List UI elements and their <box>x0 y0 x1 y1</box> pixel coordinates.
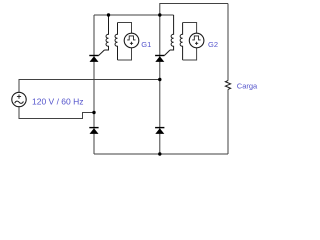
pulse source G2 circle <box>189 33 204 48</box>
wire top net (SCR cathodes / gate xfmr taps) y=15 <box>94 14 174 16</box>
diode D1 cathode bar <box>89 127 98 129</box>
diode D2 cathode bar <box>155 127 164 129</box>
SCR Q1 triangle <box>90 56 99 62</box>
wire middle column <box>159 15 161 154</box>
svg-text:G2: G2 <box>208 40 218 49</box>
transformer T1 primary coil <box>115 23 118 61</box>
transformer T2 primary coil <box>180 23 183 61</box>
pulse source G2 square-wave glyph <box>192 36 200 40</box>
diode D2 triangle <box>155 128 164 134</box>
resistor Carga zigzag <box>225 81 230 90</box>
svg-text:G1: G1 <box>141 40 151 49</box>
svg-text:Carga: Carga <box>237 81 258 90</box>
wire right rail lower <box>227 89 229 154</box>
pulse source G1 square-wave glyph <box>127 36 135 40</box>
diode D1 triangle <box>90 128 99 134</box>
pulse source G1 plus <box>130 42 133 45</box>
AC source V1 circle <box>12 92 26 106</box>
SCR Q2 triangle <box>155 56 164 62</box>
AC source plus sign <box>17 95 21 99</box>
junction node SCR2 anode / source <box>158 78 161 81</box>
wire source bottom jog to left column <box>19 107 94 119</box>
wire left column <box>93 15 95 154</box>
AC source sine glyph <box>15 101 24 103</box>
junction node source bottom / left column <box>92 111 95 114</box>
pulse source G1 circle <box>124 33 139 48</box>
junction node bottom rail <box>158 152 161 155</box>
wire G1 primary loop <box>118 23 132 61</box>
transformer T2 secondary coil (to SCR2 gate) <box>170 15 174 50</box>
wire G2 primary loop <box>183 23 197 61</box>
wire bottom rail <box>94 153 228 155</box>
SCR Q1 cathode bar <box>89 55 98 57</box>
wire source top to SCR2 anode <box>19 80 160 93</box>
junction node top mid <box>158 13 161 16</box>
pulse source G2 plus <box>195 42 198 45</box>
transformer T1 secondary coil (to SCR1 gate) <box>104 15 108 50</box>
SCR Q2 gate lead <box>164 50 170 56</box>
junction dot G1 tap <box>107 13 110 16</box>
SCR Q2 cathode bar <box>155 55 164 57</box>
svg-text:120 V / 60 Hz: 120 V / 60 Hz <box>32 97 84 107</box>
SCR Q1 gate lead <box>99 50 105 56</box>
wire right rail upper <box>227 4 229 81</box>
wire load net top <box>160 4 228 16</box>
